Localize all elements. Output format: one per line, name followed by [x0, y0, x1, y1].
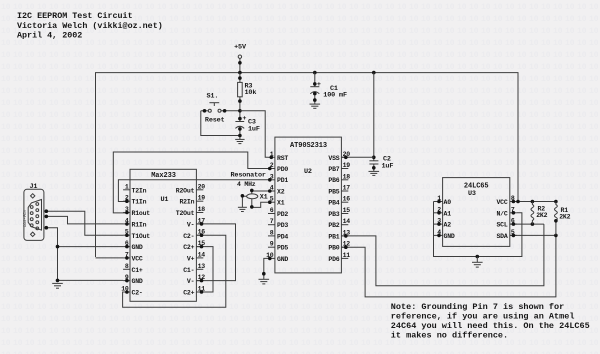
svg-text:A0: A0 [444, 199, 452, 206]
svg-text:T1In: T1In [132, 199, 147, 206]
svg-text:A1: A1 [444, 210, 452, 217]
wire rail to C2 [373, 73, 375, 161]
svg-text:PB6: PB6 [328, 177, 339, 184]
svg-text:19: 19 [198, 195, 206, 202]
svg-text:SDA: SDA [496, 233, 507, 240]
title text [17, 11, 163, 41]
svg-text:PB1: PB1 [328, 233, 339, 240]
svg-text:SCL: SCL [496, 222, 507, 229]
svg-text:7: 7 [270, 218, 274, 225]
ground (C1) [310, 104, 321, 108]
svg-text:VCC: VCC [496, 199, 507, 206]
svg-text:AT90S2313: AT90S2313 [290, 142, 327, 150]
svg-text:19: 19 [343, 162, 351, 169]
svg-text:9: 9 [270, 241, 274, 248]
resonator X1 crystal [247, 193, 268, 201]
wire U1 loop C2- 16 to 10 [123, 233, 226, 307]
connector J1 DB9 [23, 183, 44, 241]
svg-text:8: 8 [270, 229, 274, 236]
svg-text:V-: V- [187, 278, 194, 285]
svg-text:PD6: PD6 [328, 256, 339, 263]
ground (C3) [235, 139, 244, 143]
U2 left pin stubs and numbers [266, 151, 275, 259]
svg-text:C2-: C2- [183, 233, 194, 240]
svg-text:GND: GND [277, 256, 288, 263]
wire PD1 to U1 T1In [118, 178, 271, 202]
svg-text:R1In: R1In [132, 221, 147, 228]
svg-text:X1: X1 [277, 200, 285, 207]
svg-text:GND: GND [132, 244, 143, 251]
U3 right pin labels [496, 199, 507, 240]
svg-text:100 mF: 100 mF [323, 92, 347, 100]
svg-text:1uF: 1uF [382, 163, 394, 171]
svg-text:Reset: Reset [205, 117, 225, 125]
svg-text:N/C: N/C [496, 210, 507, 217]
svg-text:11: 11 [343, 252, 351, 259]
svg-text:Victoria Welch (vikki@oz.net): Victoria Welch (vikki@oz.net) [17, 21, 163, 31]
svg-text:1uF: 1uF [248, 126, 260, 134]
capacitor C1 [310, 73, 347, 105]
wire J1 ground to U1 GND pins [45, 226, 124, 282]
U1 left pin labels [132, 187, 151, 296]
U2 left pin labels [277, 155, 288, 263]
svg-text:14: 14 [198, 251, 206, 258]
IC U1 Max233 body [130, 169, 196, 301]
wire X2 to resonator [250, 189, 272, 194]
wire U1 loop V- 17 to 12 [196, 222, 235, 282]
svg-text:15: 15 [343, 207, 351, 214]
U1 right pin stubs and numbers [196, 183, 205, 292]
svg-text:2K2: 2K2 [536, 212, 547, 219]
svg-text:C2+: C2+ [183, 290, 194, 297]
svg-text:17: 17 [343, 185, 351, 192]
svg-text:RST: RST [277, 155, 288, 162]
node RST pin junction [270, 156, 274, 160]
svg-text:T1Out: T1Out [132, 233, 151, 240]
svg-text:PB0: PB0 [328, 245, 339, 252]
label Resonator [231, 172, 266, 188]
resistor R1 [554, 202, 571, 236]
svg-text:U3: U3 [468, 190, 476, 198]
svg-text:16: 16 [343, 196, 351, 203]
svg-text:I2C EEPROM Test Circuit: I2C EEPROM Test Circuit [17, 11, 133, 21]
svg-text:Resonator: Resonator [231, 172, 266, 180]
U3 left pin stubs and numbers [434, 195, 443, 236]
svg-text:DB9-FEM: DB9-FEM [23, 209, 28, 227]
wire U2 VSS pin20 to C2 [341, 156, 373, 160]
svg-text:it makes no difference.: it makes no difference. [391, 331, 508, 341]
wire S1 to ground loop [201, 111, 240, 136]
node U1 connected pin dots [125, 199, 129, 293]
svg-text:April 4, 2002: April 4, 2002 [17, 31, 82, 41]
wire resonator center tap to ground [241, 194, 247, 207]
wire J1 to U1 T1Out [45, 209, 124, 235]
svg-text:Note: Grounding Pin 7 is shown: Note: Grounding Pin 7 is shown for [391, 302, 564, 312]
wire reset to RST pin [240, 111, 268, 158]
svg-text:PD5: PD5 [277, 245, 288, 252]
svg-text:PB2: PB2 [328, 222, 339, 229]
svg-text:20: 20 [198, 183, 206, 190]
wire U3 VCC line [510, 200, 558, 204]
svg-text:10k: 10k [245, 89, 257, 97]
capacitor C3 [235, 115, 259, 139]
wire U2 GND pin10 to ground [262, 257, 272, 280]
svg-text:C1-: C1- [183, 267, 194, 274]
svg-text:T2Out: T2Out [176, 210, 195, 217]
IC U3 24LC65 body [443, 178, 510, 247]
svg-text:+: + [317, 81, 321, 89]
svg-text:C2-: C2- [132, 290, 143, 297]
svg-text:C1+: C1+ [132, 267, 143, 274]
wire J1 to U1 R1In [45, 215, 124, 224]
wire U3 SDA line [510, 234, 558, 238]
svg-text:U2: U2 [304, 168, 312, 176]
wire +5V to U1 VCC pin7 [96, 257, 124, 259]
svg-text:PD3: PD3 [277, 222, 288, 229]
U3 right pin stubs and numbers [510, 195, 517, 236]
svg-text:R1out: R1out [132, 210, 151, 217]
svg-text:C2+: C2+ [183, 244, 194, 251]
wire U3 SCL line [510, 222, 544, 226]
svg-text:VSS: VSS [328, 155, 339, 162]
svg-text:PD1: PD1 [277, 177, 288, 184]
wire X1 to resonator [250, 199, 272, 209]
wire U2 PB1 to SCL [341, 224, 544, 286]
svg-text:8: 8 [125, 263, 129, 270]
svg-text:R2Out: R2Out [176, 187, 195, 194]
svg-text:GND: GND [132, 278, 143, 285]
svg-text:X2: X2 [277, 188, 285, 195]
U1 left pin stubs and numbers [121, 183, 130, 292]
U1 right pin labels [176, 187, 195, 296]
wire U1 loop C2+ 15 to 11 [196, 245, 213, 294]
svg-text:PD0: PD0 [277, 166, 288, 173]
svg-text:PB3: PB3 [328, 211, 339, 218]
svg-text:PD4: PD4 [277, 233, 288, 240]
svg-text:R2In: R2In [179, 199, 194, 206]
svg-text:V+: V+ [187, 256, 195, 263]
U2 right pin stubs and numbers [341, 151, 350, 259]
svg-text:+5V: +5V [234, 44, 247, 52]
svg-text:X1: X1 [260, 193, 268, 201]
svg-text:V-: V- [187, 221, 194, 228]
ground (C2) [369, 171, 380, 175]
ground (U2 GND) [259, 279, 270, 284]
svg-text:PB5: PB5 [328, 188, 339, 195]
svg-text:U1: U1 [161, 196, 169, 204]
svg-text:Max233: Max233 [151, 172, 176, 180]
svg-text:A2: A2 [444, 222, 452, 229]
note text [391, 302, 590, 341]
wire U2 PB0 to SDA [341, 235, 556, 297]
node +5V terminal [234, 44, 247, 73]
svg-text:VCC: VCC [132, 256, 143, 263]
svg-text:GND: GND [444, 233, 455, 240]
svg-text:18: 18 [343, 173, 351, 180]
svg-text:14: 14 [343, 218, 351, 225]
ground (J1/U1) [52, 283, 63, 288]
svg-text:2K2: 2K2 [559, 214, 570, 221]
resistor R3 [238, 73, 257, 122]
wire +5V rail [96, 71, 519, 257]
svg-text:13: 13 [198, 263, 206, 270]
svg-text:PD2: PD2 [277, 211, 288, 218]
U3 left pin labels [444, 199, 455, 240]
svg-text:T2In: T2In [132, 187, 147, 194]
resistor R2 [531, 202, 548, 225]
svg-text:6: 6 [270, 207, 274, 214]
capacitor C2 [369, 155, 393, 171]
switch S1 Reset [201, 92, 242, 124]
IC U2 AT90S2313 body [275, 137, 342, 273]
svg-text:1: 1 [125, 183, 129, 190]
svg-text:S1.: S1. [207, 92, 219, 100]
svg-text:PB4: PB4 [328, 200, 339, 207]
svg-text:4 MHz: 4 MHz [237, 181, 256, 188]
ground (resonator) [238, 207, 247, 211]
svg-text:18: 18 [198, 206, 206, 213]
wire PD0 loop to U1 R1out [113, 152, 271, 213]
ground (U3) [472, 255, 483, 267]
svg-text:PB7: PB7 [328, 166, 339, 173]
svg-text:24C64 you will need this. On t: 24C64 you will need this. On the 24LC65 [391, 321, 590, 331]
svg-text:reference, if you are using an: reference, if you are using an Atmel [391, 312, 575, 322]
U2 right pin labels [328, 155, 339, 263]
wire U3 address bus to ground line [434, 200, 522, 257]
